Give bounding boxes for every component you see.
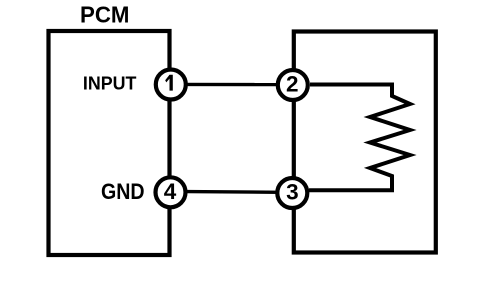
svg-text:PCM: PCM — [80, 2, 130, 28]
svg-text:2: 2 — [286, 71, 299, 96]
svg-text:INPUT: INPUT — [83, 74, 136, 94]
svg-text:GND: GND — [101, 179, 145, 204]
svg-text:4: 4 — [164, 179, 177, 204]
svg-text:3: 3 — [286, 179, 299, 204]
